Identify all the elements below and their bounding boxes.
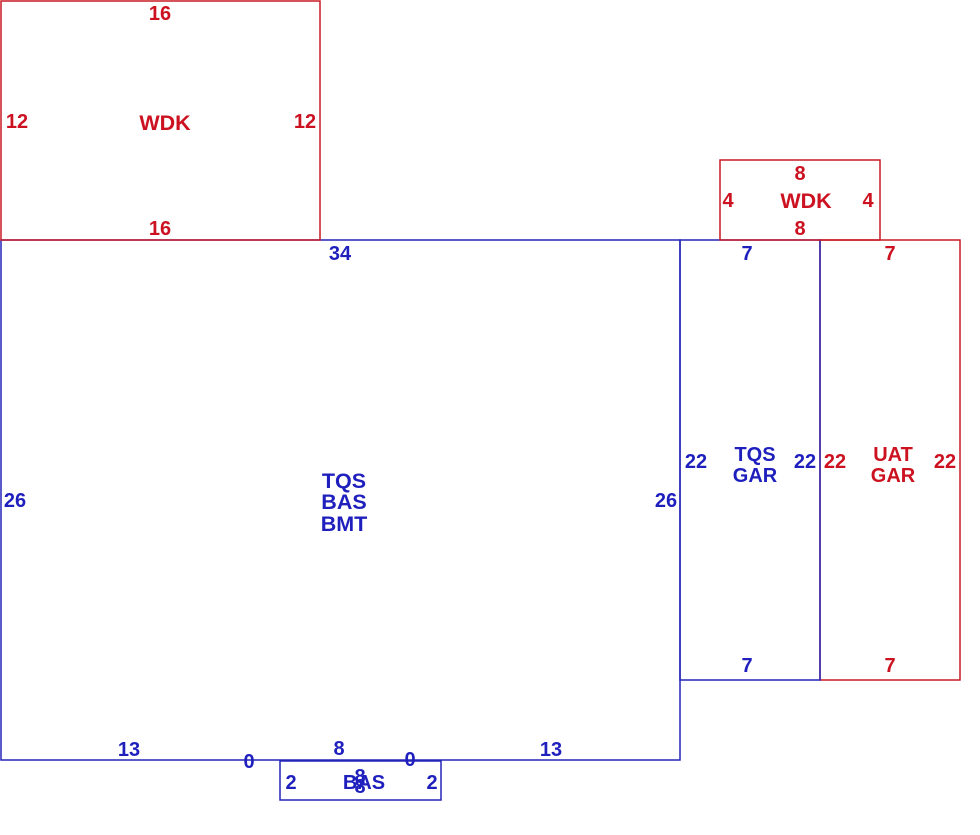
svg-text:8: 8 bbox=[794, 218, 805, 240]
area WDK (top-left) outline bbox=[1, 1, 320, 240]
svg-text:2: 2 bbox=[285, 772, 296, 794]
svg-text:4: 4 bbox=[862, 190, 874, 212]
svg-text:26: 26 bbox=[655, 490, 677, 512]
svg-text:22: 22 bbox=[824, 451, 846, 473]
svg-text:34: 34 bbox=[329, 243, 352, 265]
svg-text:7: 7 bbox=[884, 655, 895, 677]
svg-text:TQS: TQS bbox=[734, 444, 775, 466]
svg-text:UAT: UAT bbox=[873, 444, 913, 466]
area BAS (bottom bump-out) outline bbox=[280, 761, 441, 800]
svg-text:22: 22 bbox=[794, 451, 816, 473]
area WDK (small, top-right) outline bbox=[720, 160, 880, 240]
svg-text:GAR: GAR bbox=[871, 465, 916, 487]
svg-text:12: 12 bbox=[294, 111, 316, 133]
area TQS GAR outline bbox=[680, 240, 820, 680]
svg-text:8: 8 bbox=[794, 163, 805, 185]
svg-text:22: 22 bbox=[685, 451, 707, 473]
svg-text:16: 16 bbox=[149, 3, 171, 25]
svg-text:0: 0 bbox=[243, 751, 254, 773]
svg-text:8: 8 bbox=[333, 738, 344, 760]
area TQS/BAS/BMT main outline bbox=[1, 240, 680, 760]
svg-text:7: 7 bbox=[884, 243, 895, 265]
svg-text:7: 7 bbox=[741, 655, 752, 677]
svg-text:BAS: BAS bbox=[321, 490, 366, 514]
svg-text:BMT: BMT bbox=[321, 512, 368, 536]
svg-text:7: 7 bbox=[741, 243, 752, 265]
svg-text:WDK: WDK bbox=[139, 111, 191, 135]
svg-text:4: 4 bbox=[722, 190, 734, 212]
svg-text:WDK: WDK bbox=[780, 189, 832, 213]
svg-text:2: 2 bbox=[426, 772, 437, 794]
svg-text:16: 16 bbox=[149, 218, 171, 240]
svg-text:GAR: GAR bbox=[733, 465, 778, 487]
svg-text:22: 22 bbox=[934, 451, 956, 473]
svg-text:13: 13 bbox=[118, 739, 140, 761]
svg-text:13: 13 bbox=[540, 739, 562, 761]
area UAT GAR outline bbox=[820, 240, 960, 680]
svg-text:BAS: BAS bbox=[343, 772, 385, 794]
svg-text:0: 0 bbox=[404, 749, 415, 771]
svg-text:26: 26 bbox=[4, 490, 26, 512]
svg-text:12: 12 bbox=[6, 111, 28, 133]
